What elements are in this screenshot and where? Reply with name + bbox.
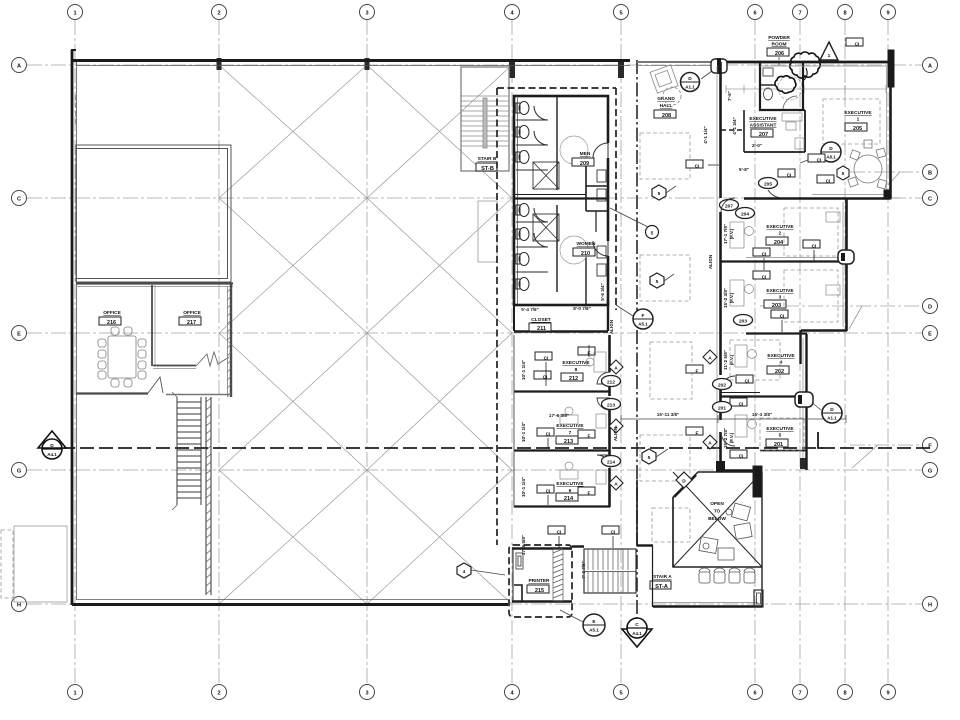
A diamonds office strip	[609, 360, 623, 490]
svg-text:A1.1: A1.1	[685, 85, 695, 90]
svg-text:2: 2	[217, 691, 220, 697]
svg-text:212: 212	[607, 380, 615, 386]
svg-text:213: 213	[607, 403, 615, 409]
printer hatched shaft	[553, 549, 563, 601]
svg-text:CI: CI	[546, 489, 551, 495]
svg-text:EXECUTIVE: EXECUTIVE	[844, 110, 872, 116]
svg-text:PRINTER: PRINTER	[528, 578, 550, 584]
svg-text:5: 5	[619, 11, 622, 17]
assistant furniture	[782, 113, 804, 149]
svg-text:ROOM: ROOM	[772, 42, 787, 48]
svg-text:9: 9	[886, 11, 889, 17]
svg-text:EXECUTIVE: EXECUTIVE	[767, 353, 795, 359]
stair B label	[476, 156, 497, 172]
svg-text:204: 204	[741, 212, 749, 218]
svg-text:4: 4	[463, 569, 466, 575]
executive 6 214 labels	[556, 481, 584, 502]
svg-text:A8.1: A8.1	[826, 155, 836, 160]
svg-text:CI: CI	[762, 252, 767, 258]
svg-text:CI: CI	[739, 402, 744, 408]
marker D/A11 right	[804, 396, 842, 423]
section line F (D/A41)	[42, 447, 930, 449]
executive assistant labels	[749, 116, 777, 138]
svg-text:7: 7	[798, 691, 801, 697]
oval tags 207/204/203	[720, 200, 755, 326]
svg-text:209: 209	[580, 161, 589, 167]
wall stair A to lounge	[572, 545, 653, 607]
right wing east wall + column	[887, 50, 895, 198]
svg-text:EXECUTIVE: EXECUTIVE	[766, 288, 794, 294]
svg-text:17'-6 3/8": 17'-6 3/8"	[549, 413, 569, 418]
svg-text:B: B	[928, 171, 932, 177]
svg-text:6: 6	[753, 11, 756, 17]
svg-text:F: F	[588, 491, 591, 497]
svg-text:213: 213	[564, 439, 573, 445]
exterior wall left	[72, 50, 77, 605]
grid bubbles top	[68, 5, 896, 20]
svg-text:11'-2 5/8": 11'-2 5/8"	[723, 350, 728, 370]
svg-text:C: C	[635, 622, 639, 628]
svg-text:201: 201	[774, 442, 783, 448]
women 210 label	[573, 241, 596, 257]
svg-text:(F.V.): (F.V.)	[729, 228, 734, 239]
executive 3 203 labels	[764, 288, 794, 309]
office 216 label	[99, 310, 122, 326]
corridor lower walls near 201	[637, 480, 673, 568]
svg-text:POWDER: POWDER	[768, 35, 790, 41]
svg-text:203: 203	[739, 319, 747, 325]
svg-text:H: H	[928, 603, 932, 609]
svg-text:1: 1	[828, 53, 831, 59]
svg-text:CI: CI	[812, 244, 817, 250]
svg-text:CI: CI	[543, 375, 548, 381]
svg-text:(F.V.): (F.V.)	[729, 292, 734, 303]
svg-text:10'-1 1/4": 10'-1 1/4"	[521, 360, 526, 380]
executive 1 labels	[844, 110, 872, 132]
executive 1 round table	[848, 140, 887, 189]
svg-text:3: 3	[365, 11, 368, 17]
CI/F boxes 202/201	[686, 365, 753, 458]
svg-text:202: 202	[775, 369, 784, 375]
svg-text:F: F	[588, 351, 591, 357]
CI box grand hall	[686, 160, 719, 168]
circle 5 tag	[610, 208, 659, 239]
svg-text:CI: CI	[787, 173, 792, 179]
corridor CI boxes below 214	[548, 526, 619, 548]
marker C/A41	[622, 618, 652, 647]
desks 204/203	[730, 212, 840, 306]
svg-text:15'-2 3/8": 15'-2 3/8"	[723, 288, 728, 308]
corridor wall right wing	[717, 62, 721, 472]
svg-text:A: A	[17, 64, 21, 70]
svg-text:EXECUTIVE: EXECUTIVE	[766, 224, 794, 230]
svg-text:207: 207	[725, 204, 733, 210]
X bracing diagonals warehouse	[219, 65, 512, 604]
lounge chairs row	[699, 568, 755, 583]
door arcs office strip	[597, 372, 610, 468]
svg-text:CI: CI	[544, 356, 549, 362]
svg-text:G: G	[17, 469, 21, 475]
accessible stalls with X	[533, 162, 559, 241]
svg-text:D: D	[829, 146, 833, 152]
dashed zone 201	[730, 340, 804, 450]
executive 8 212 labels	[561, 360, 590, 382]
svg-text:5: 5	[619, 691, 622, 697]
svg-text:F: F	[588, 434, 591, 440]
CI boxes 204/203	[753, 240, 820, 332]
svg-text:214: 214	[607, 460, 615, 466]
svg-text:5: 5	[656, 279, 659, 285]
grand hall dashed future tables	[640, 133, 692, 542]
restroom sinks right	[560, 136, 606, 276]
marker F/A51 mid	[616, 305, 653, 329]
svg-text:8: 8	[843, 691, 846, 697]
svg-text:C: C	[17, 197, 21, 203]
stair A label	[650, 574, 672, 590]
rotated dim texts right corridor	[703, 91, 762, 448]
svg-text:BELOW: BELOW	[708, 516, 726, 522]
svg-text:2: 2	[779, 231, 782, 237]
svg-text:CI: CI	[745, 379, 750, 385]
grand hall rotated table	[650, 65, 681, 105]
svg-text:D: D	[928, 305, 932, 311]
powder room walls	[760, 62, 803, 110]
svg-text:D: D	[50, 443, 54, 449]
svg-text:5'-6 3/4": 5'-6 3/4"	[600, 283, 605, 301]
svg-text:203: 203	[772, 303, 781, 309]
offices 216/217 walls	[76, 283, 233, 397]
executive 2 204 labels	[766, 224, 794, 246]
svg-text:EXECUTIVE: EXECUTIVE	[556, 481, 584, 487]
svg-text:5: 5	[779, 433, 782, 439]
svg-text:9: 9	[886, 691, 889, 697]
svg-text:10'-1 1/4": 10'-1 1/4"	[521, 477, 526, 497]
svg-text:CI: CI	[826, 179, 831, 185]
svg-text:ALIGN: ALIGN	[613, 426, 618, 441]
svg-text:3: 3	[365, 691, 368, 697]
CI/F boxes office 212	[534, 345, 595, 386]
marker D/A11 top	[681, 68, 717, 92]
svg-text:15'-2 7/8": 15'-2 7/8"	[723, 428, 728, 448]
grand hall label	[654, 96, 676, 119]
closet label	[529, 317, 551, 332]
svg-text:15'-11 3/8": 15'-11 3/8"	[657, 412, 679, 417]
dim texts left of office strip (rotated)	[521, 283, 618, 579]
svg-text:EXECUTIVE: EXECUTIVE	[766, 426, 794, 432]
printer walls	[512, 548, 572, 602]
svg-text:CLOSET: CLOSET	[531, 317, 551, 323]
offices 202/201 block	[721, 334, 823, 471]
svg-text:E: E	[928, 332, 932, 338]
svg-text:A: A	[614, 366, 618, 372]
door dashes left wall	[75, 95, 77, 126]
svg-text:A: A	[708, 356, 712, 362]
grand hall storefront top	[637, 62, 720, 66]
svg-text:5: 5	[658, 191, 661, 197]
oval tags 202/201	[713, 379, 732, 413]
men 209 label	[572, 151, 594, 167]
executive assistant room	[721, 110, 805, 152]
svg-text:D: D	[830, 407, 834, 413]
column at grid6/A	[711, 58, 727, 74]
tree cloud	[775, 52, 820, 93]
svg-text:6: 6	[753, 691, 756, 697]
oval door tags 212/213/214	[602, 376, 621, 467]
svg-text:204: 204	[774, 240, 784, 246]
svg-text:210: 210	[581, 251, 590, 257]
stair guard wall hatched	[206, 397, 211, 595]
svg-text:215: 215	[535, 588, 544, 594]
svg-text:F: F	[642, 313, 645, 319]
svg-text:211: 211	[537, 326, 546, 332]
svg-text:7: 7	[569, 430, 572, 436]
svg-text:ST-A: ST-A	[655, 584, 668, 590]
door arcs corridor right	[721, 198, 735, 446]
printer 215 dashed boundary	[509, 545, 572, 617]
svg-text:5: 5	[842, 171, 845, 177]
svg-text:(F.V.): (F.V.)	[729, 432, 734, 443]
desks in offices 212-214	[560, 352, 606, 484]
closet 211	[514, 300, 608, 332]
column rounded at 203 wall	[838, 250, 854, 264]
svg-text:ST-B: ST-B	[481, 166, 494, 172]
dim string top right wing	[726, 85, 886, 93]
executive 7 213 labels	[556, 423, 584, 445]
dashed zones 204/203	[784, 208, 838, 322]
loading dock bottom-left	[1, 526, 67, 602]
svg-text:217: 217	[187, 320, 196, 326]
restroom demising dashed boundary	[497, 88, 616, 545]
hatched column 202 wall end	[800, 458, 806, 469]
top wall columns at grids	[217, 58, 625, 78]
svg-text:CI: CI	[546, 432, 551, 438]
svg-text:H: H	[17, 603, 21, 609]
stair B	[461, 67, 509, 171]
warehouse stair	[172, 392, 201, 510]
svg-text:CI: CI	[739, 454, 744, 460]
stair A treads	[584, 549, 636, 593]
dimension line right	[621, 415, 846, 423]
printer label	[527, 578, 550, 594]
svg-text:OFFICE: OFFICE	[103, 310, 121, 316]
svg-text:OPEN: OPEN	[710, 501, 724, 507]
svg-text:5: 5	[651, 231, 654, 237]
restroom entry doors right wall	[593, 143, 611, 256]
svg-text:F: F	[696, 431, 699, 437]
svg-text:A4.1: A4.1	[632, 631, 642, 636]
grid bubbles bottom	[68, 685, 896, 700]
svg-text:2: 2	[217, 11, 220, 17]
powder room label	[767, 35, 790, 66]
marker E/A51	[560, 610, 605, 636]
svg-text:202: 202	[718, 383, 726, 389]
svg-text:10'-1 1/4": 10'-1 1/4"	[521, 422, 526, 442]
A diamonds right	[703, 350, 717, 449]
svg-text:8: 8	[575, 367, 578, 373]
bottom wall lounge	[653, 590, 763, 607]
office 217 label	[179, 310, 202, 326]
svg-text:A: A	[614, 482, 618, 488]
svg-text:4'-1 1/4": 4'-1 1/4"	[703, 126, 708, 144]
desks 202/201	[735, 345, 757, 437]
restroom stall partitions / fixtures	[516, 102, 548, 291]
svg-text:201: 201	[718, 406, 726, 412]
door notches office strip	[608, 372, 611, 468]
svg-text:A: A	[928, 64, 932, 70]
svg-text:A4.1: A4.1	[47, 452, 57, 457]
svg-text:205: 205	[853, 126, 862, 132]
svg-text:F: F	[696, 369, 699, 375]
oval 205	[759, 178, 787, 199]
svg-text:205: 205	[764, 182, 772, 188]
svg-text:A5.1: A5.1	[589, 628, 599, 633]
hexagon 5 markers	[642, 185, 676, 464]
svg-text:D: D	[682, 479, 686, 485]
svg-text:CI: CI	[695, 164, 700, 170]
svg-text:216: 216	[107, 320, 116, 326]
svg-text:ALIGN: ALIGN	[609, 319, 614, 334]
svg-text:1: 1	[857, 117, 860, 123]
svg-text:7'-6": 7'-6"	[727, 91, 732, 101]
offices 204/203 block walls	[721, 198, 847, 364]
svg-text:8: 8	[843, 11, 846, 17]
svg-text:CI: CI	[762, 275, 767, 281]
svg-text:HALL: HALL	[660, 103, 673, 109]
storage room top-left	[76, 145, 231, 282]
svg-text:ASSISTANT: ASSISTANT	[750, 123, 777, 129]
CI boxes right wing top	[778, 38, 863, 183]
svg-text:214: 214	[564, 496, 574, 502]
marker Q diamond	[676, 472, 692, 488]
svg-text:CI: CI	[855, 42, 860, 48]
open to below area	[673, 466, 762, 607]
svg-text:CI: CI	[557, 530, 562, 536]
lounge furniture	[699, 503, 752, 560]
svg-text:206: 206	[775, 51, 784, 57]
svg-text:E: E	[17, 332, 21, 338]
svg-text:GRAND: GRAND	[657, 96, 675, 102]
column block corridor end	[716, 461, 725, 472]
office strip walls (212/213/214)	[514, 335, 610, 507]
svg-text:STAIR A: STAIR A	[653, 574, 672, 580]
section marker D/A41 left	[38, 431, 66, 459]
svg-text:STAIR B: STAIR B	[478, 156, 497, 162]
svg-text:4'-1 3/4": 4'-1 3/4"	[732, 117, 737, 135]
svg-text:ALIGN: ALIGN	[708, 254, 713, 269]
exterior wall top	[71, 50, 630, 66]
svg-text:WOMEN: WOMEN	[577, 241, 596, 247]
executive 5 201 labels	[766, 426, 794, 448]
column rounded at 202 corner	[795, 392, 813, 407]
conference table office 216	[98, 327, 146, 387]
svg-text:208: 208	[662, 113, 671, 119]
executive 1 205 dashed zone	[823, 99, 880, 144]
svg-text:TO: TO	[714, 509, 721, 515]
open to below text	[708, 501, 726, 522]
svg-text:EXECUTIVE: EXECUTIVE	[749, 116, 777, 122]
future ramp rect near demising	[478, 201, 497, 262]
svg-text:OFFICE: OFFICE	[183, 310, 201, 316]
restroom block walls	[514, 96, 608, 305]
svg-text:17'-1 7/8": 17'-1 7/8"	[723, 224, 728, 244]
svg-text:A: A	[708, 441, 712, 447]
svg-text:CI: CI	[817, 158, 822, 164]
wall below exec1 block	[744, 190, 891, 199]
grid bubbles left	[12, 58, 27, 612]
svg-text:7: 7	[798, 11, 801, 17]
svg-text:G: G	[928, 469, 932, 475]
svg-text:MEN: MEN	[580, 151, 591, 157]
svg-text:C: C	[928, 197, 932, 203]
svg-text:5: 5	[648, 455, 651, 461]
svg-text:5'-4 7/8": 5'-4 7/8"	[521, 307, 539, 312]
svg-text:8'-0 7/8": 8'-0 7/8"	[573, 306, 591, 311]
hexagon 4 marker	[457, 563, 505, 578]
svg-text:207: 207	[759, 132, 768, 138]
marker D/A81	[800, 142, 841, 163]
grid bubbles right	[923, 58, 938, 612]
svg-text:5'-8": 5'-8"	[739, 167, 749, 172]
bubble leader elbows right	[849, 172, 900, 468]
revision triangle 1	[820, 42, 838, 60]
svg-text:2'-0": 2'-0"	[752, 143, 762, 148]
svg-text:CI: CI	[611, 530, 616, 536]
svg-text:CI: CI	[780, 314, 785, 320]
section line C/A41 vertical corridor	[636, 60, 638, 618]
executive 4 202 labels	[767, 353, 795, 375]
svg-text:212: 212	[569, 376, 578, 382]
svg-text:A1.1: A1.1	[827, 416, 837, 421]
svg-text:15'-3 3/8": 15'-3 3/8"	[752, 412, 772, 417]
svg-text:1: 1	[73, 11, 76, 17]
svg-text:D: D	[688, 76, 692, 82]
exterior wall bottom	[72, 600, 508, 605]
exterior wall top right wing	[727, 62, 890, 66]
svg-text:A5.1: A5.1	[638, 322, 648, 327]
svg-text:1: 1	[73, 691, 76, 697]
hexagon 5 exec1	[837, 166, 849, 180]
